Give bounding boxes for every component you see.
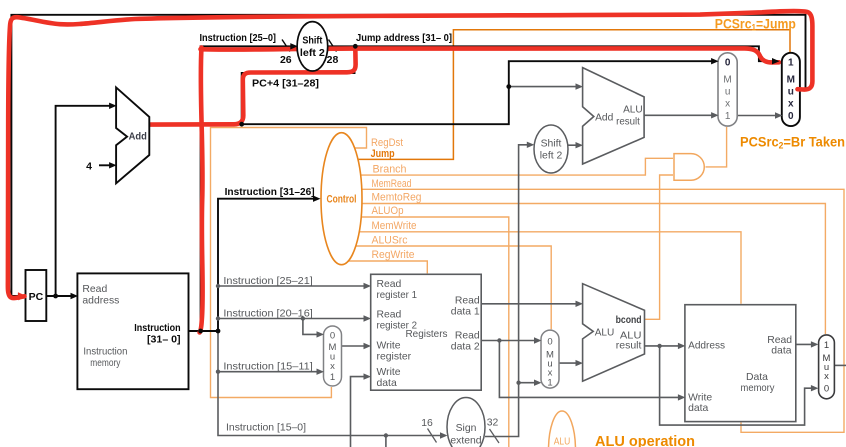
node dot instruction [15-11] tap	[216, 370, 220, 374]
svg-text:0: 0	[330, 331, 335, 342]
svg-text:data 2: data 2	[451, 342, 480, 353]
svg-text:Sign: Sign	[456, 423, 477, 434]
wire jump address from shift left 2 to jump mux input 1	[328, 46, 779, 61]
node dot jump address junction	[353, 44, 358, 49]
wire shift left 2 output to branch adder bottom input	[567, 144, 579, 146]
arrow into shift left 2 jump	[290, 43, 298, 49]
svg-text:0: 0	[547, 337, 552, 348]
svg-text:PCSrc1=Jump: PCSrc1=Jump	[715, 17, 796, 33]
wire Jump control (dark orange) to jump mux select	[352, 30, 790, 160]
svg-text:0: 0	[788, 111, 794, 122]
svg-text:Shift: Shift	[302, 35, 322, 47]
arrow into branch adder bottom input	[576, 142, 584, 148]
svg-text:Branch: Branch	[373, 164, 407, 176]
wire final mux output	[834, 364, 846, 366]
slash 16 on sign extend input	[428, 429, 437, 443]
wire Instruction [25-0] vertical	[201, 46, 294, 331]
svg-text:PC: PC	[29, 291, 44, 303]
node dot Add output junction	[239, 122, 244, 127]
svg-text:Read: Read	[455, 331, 480, 342]
svg-text:Read: Read	[767, 335, 792, 346]
svg-text:1: 1	[788, 58, 794, 69]
wire RegDst control route	[211, 128, 367, 398]
svg-text:bcond: bcond	[616, 314, 642, 326]
arrow into RegDst mux input 1	[317, 369, 325, 375]
svg-text:x: x	[330, 361, 335, 372]
wire RegDst mux output to Write register	[342, 345, 368, 347]
wire Read data 2 to ALUSrc mux input 0	[481, 340, 537, 342]
wire ALUSrc mux output to ALU bottom input	[559, 362, 579, 364]
svg-text:0: 0	[725, 58, 731, 69]
data memory	[685, 305, 796, 422]
node dot Read data 2 branch	[497, 338, 501, 342]
wire AND gate output to branch mux select	[706, 127, 727, 167]
instruction memory	[77, 273, 188, 389]
node dot [20-16] branch to mux	[301, 316, 305, 320]
red highlight jump address trace	[201, 48, 780, 62]
svg-text:32: 32	[487, 418, 499, 429]
svg-text:PCSrc2=Br Taken: PCSrc2=Br Taken	[740, 135, 845, 151]
svg-text:result: result	[616, 117, 640, 128]
alu main ALU	[583, 284, 645, 382]
svg-text:Read: Read	[455, 296, 480, 307]
wire branch adder result to branch mux input 1	[644, 114, 714, 116]
svg-text:1: 1	[725, 111, 731, 122]
arrow into Control	[313, 196, 321, 202]
arrow into ALU top input	[576, 301, 584, 307]
wire branch mux output to jump mux input 0	[737, 115, 778, 117]
svg-text:u: u	[725, 87, 731, 98]
svg-text:PC+4 [31–28]: PC+4 [31–28]	[252, 78, 319, 90]
svg-text:Instruction [15–11]: Instruction [15–11]	[223, 362, 313, 373]
svg-text:register: register	[377, 352, 412, 363]
svg-text:Instruction [20–16]: Instruction [20–16]	[223, 309, 313, 320]
node dot sign extend branch	[516, 381, 520, 385]
arrow into ALUSrc mux input 1	[534, 380, 542, 386]
arrow into data memory Address	[678, 343, 686, 349]
mux jump (PCSrc1)	[782, 53, 800, 126]
svg-text:Instruction [31–26]: Instruction [31–26]	[225, 186, 315, 198]
wire Read data 2 branch to data memory Write data	[499, 341, 681, 398]
arrow into ALU bottom input	[576, 360, 584, 366]
svg-text:4: 4	[86, 161, 92, 173]
arrow into branch mux input 1	[711, 112, 719, 118]
svg-text:Registers: Registers	[406, 329, 448, 340]
wire Read data to final mux input 1	[796, 343, 815, 345]
svg-text:ALUSrc: ALUSrc	[372, 235, 409, 247]
svg-text:Control: Control	[327, 194, 357, 206]
mux ALUSrc	[541, 330, 559, 388]
wire sign extend branch to ALUSrc mux input 1	[519, 382, 537, 384]
wire Instruction [15-11] to RegDst mux input 1	[218, 371, 320, 373]
slash 32 on sign extend output	[490, 429, 500, 443]
wire Branch control to AND gate	[355, 158, 673, 175]
svg-text:result: result	[616, 341, 642, 352]
svg-text:RegWrite: RegWrite	[372, 249, 415, 261]
svg-text:x: x	[788, 99, 794, 110]
arrow into jump mux input 1	[772, 58, 780, 64]
wire PC output to instruction memory Read address	[46, 295, 74, 297]
node dot instruction [25-21] tap	[216, 284, 220, 288]
svg-text:Data: Data	[746, 372, 768, 383]
svg-text:1: 1	[547, 378, 552, 389]
wire ALUOp control down to ALU control	[356, 217, 509, 447]
svg-text:left 2: left 2	[540, 151, 563, 162]
svg-text:MemWrite: MemWrite	[372, 220, 417, 232]
wire MemRead control to data memory bottom	[356, 189, 844, 432]
red highlight PC update loop around border	[8, 11, 813, 298]
svg-text:left 2: left 2	[300, 47, 325, 59]
arrow into Read address	[71, 293, 79, 299]
svg-text:x: x	[725, 99, 730, 110]
arrow into Add bottom input from 4	[109, 162, 117, 168]
wire ALU result around to final mux input 0	[660, 346, 815, 425]
red highlight instruction [25-0] vertical trace	[200, 48, 203, 333]
arrow into branch adder top input	[576, 83, 584, 89]
wire Add output PC+4 to branch mux input 0	[149, 61, 714, 124]
svg-text:ALU: ALU	[623, 105, 643, 116]
arrow into Write register	[364, 343, 372, 349]
arrow into PC	[18, 293, 26, 299]
wire RegWrite control to registers top	[345, 261, 427, 273]
svg-text:Read: Read	[82, 284, 107, 295]
node dot PC output junction	[53, 294, 58, 299]
svg-text:0: 0	[824, 384, 829, 395]
adder Add ALU result (branch target)	[583, 68, 645, 164]
svg-text:1: 1	[824, 340, 829, 351]
wire instruction [5-0] stub to ALU control	[385, 436, 387, 447]
node dot instruction bus at vertical	[216, 329, 221, 334]
svg-text:data: data	[377, 378, 397, 389]
svg-text:Address: Address	[688, 340, 725, 351]
wire Read data 1 to ALU top input	[481, 303, 578, 305]
mux MemtoReg	[819, 335, 835, 399]
wire Instruction [20-16] to Read register 2	[218, 318, 367, 320]
svg-text:26: 26	[280, 54, 292, 66]
node dot instruction [20-16] tap	[216, 316, 220, 320]
arrow into data memory Write data	[678, 394, 686, 400]
node dot PC+4 to adder junction	[506, 84, 511, 89]
slash 26 on shift input	[282, 40, 290, 52]
wire PC+4 into branch adder top input	[509, 86, 579, 88]
arrow into shift left 2 branch	[527, 142, 535, 148]
register PC	[26, 270, 47, 321]
arrow into Read register 2	[364, 315, 372, 321]
svg-text:Instruction [25–21]: Instruction [25–21]	[223, 276, 313, 287]
arrow into sign extend	[440, 432, 448, 438]
wire MemtoReg control to final mux select	[356, 204, 825, 335]
svg-text:MemRead: MemRead	[372, 178, 412, 190]
node dot instruction bus split	[198, 329, 203, 334]
shift left 2 (jump)	[297, 22, 328, 71]
arrow into branch mux input 0	[711, 58, 719, 64]
wire bcond from ALU to AND gate	[645, 175, 674, 319]
arrow into Read register 1	[364, 283, 372, 289]
shift left 2 (branch)	[534, 125, 568, 173]
wire constant 4 into Add bottom input	[99, 164, 113, 166]
svg-text:ALUOp: ALUOp	[372, 205, 404, 217]
node dot ALU result branch	[657, 344, 661, 348]
svg-text:Write: Write	[377, 367, 401, 378]
svg-text:ALU: ALU	[595, 328, 615, 339]
arrow into final mux input 1	[811, 341, 819, 347]
svg-text:Instruction [15–0]: Instruction [15–0]	[226, 423, 306, 434]
arrow into jump mux input 0	[775, 112, 783, 118]
svg-text:[31– 0]: [31– 0]	[147, 334, 181, 346]
wire Instruction [20-16] branch to RegDst mux input 0	[303, 319, 320, 335]
wire PC+4 [31-28] route	[242, 46, 355, 124]
red arrowhead at PC	[18, 292, 27, 300]
svg-text:Add: Add	[595, 113, 613, 124]
svg-text:Instruction: Instruction	[134, 322, 180, 334]
svg-text:data: data	[688, 403, 708, 414]
svg-text:1: 1	[330, 372, 335, 383]
svg-text:register 1: register 1	[377, 290, 418, 301]
svg-text:x: x	[824, 371, 829, 382]
wire sign extend output up to shift left 2	[485, 145, 530, 437]
wire Instruction [25-21] to Read register 1	[218, 285, 367, 287]
wire PC output up to Add top input	[56, 106, 113, 296]
registers file	[371, 274, 482, 390]
svg-text:data 1: data 1	[451, 307, 480, 318]
wire ALU result to data memory Address	[645, 345, 682, 347]
node dot instruction [5-0] tap	[384, 433, 388, 437]
svg-text:Jump address [31– 0]: Jump address [31– 0]	[356, 32, 452, 44]
mux RegDst	[324, 326, 342, 386]
svg-text:Read: Read	[377, 310, 402, 321]
svg-text:extend: extend	[450, 436, 481, 447]
wire instruction bus from instruction memory	[189, 199, 317, 331]
svg-text:MemtoReg: MemtoReg	[372, 192, 422, 204]
wire PC update loop: jump mux output around top and left to PC	[11, 15, 805, 296]
arrow into final mux input 0	[811, 385, 819, 391]
adder Add (PC+4)	[116, 87, 149, 183]
mux branch (PCSrc2)	[718, 53, 737, 126]
wire write-back into Write data of registers	[351, 377, 368, 447]
svg-text:Write: Write	[688, 392, 712, 403]
svg-text:28: 28	[327, 54, 339, 66]
svg-text:u: u	[788, 87, 794, 98]
svg-text:data: data	[771, 346, 791, 357]
svg-text:16: 16	[421, 418, 433, 429]
wire instruction [15-0] to sign extend	[218, 331, 443, 436]
svg-text:Instruction [25–0]: Instruction [25–0]	[200, 32, 277, 44]
alu control oval	[549, 411, 576, 447]
control unit oval	[321, 133, 362, 265]
svg-text:M: M	[787, 75, 795, 86]
svg-text:ALU operation: ALU operation	[595, 434, 695, 447]
red highlight PC+4 [31-28] trace	[149, 48, 356, 125]
wire ALUSrc control to ALUSrc mux select	[352, 246, 551, 329]
arrow into RegDst mux input 0	[317, 331, 325, 337]
svg-text:ALU: ALU	[554, 437, 571, 447]
svg-text:Instruction: Instruction	[83, 347, 127, 358]
svg-text:Add: Add	[129, 132, 147, 143]
svg-text:memory: memory	[90, 358, 121, 369]
svg-text:Shift: Shift	[541, 139, 562, 150]
svg-text:M: M	[723, 75, 731, 86]
arrow into Write data of registers	[364, 373, 372, 379]
svg-text:address: address	[82, 296, 119, 307]
sign extend	[447, 398, 485, 447]
svg-text:Read: Read	[377, 279, 402, 290]
slash 28 on shift output	[329, 40, 337, 52]
wire MemWrite control to data memory top	[355, 232, 741, 304]
svg-text:Write: Write	[377, 340, 401, 351]
arrow into Add top input	[109, 103, 117, 109]
svg-text:memory: memory	[741, 383, 776, 394]
svg-text:Jump: Jump	[371, 148, 395, 160]
and-gate PCSrc2	[674, 154, 704, 181]
arrow into ALUSrc mux input 0	[534, 337, 542, 343]
